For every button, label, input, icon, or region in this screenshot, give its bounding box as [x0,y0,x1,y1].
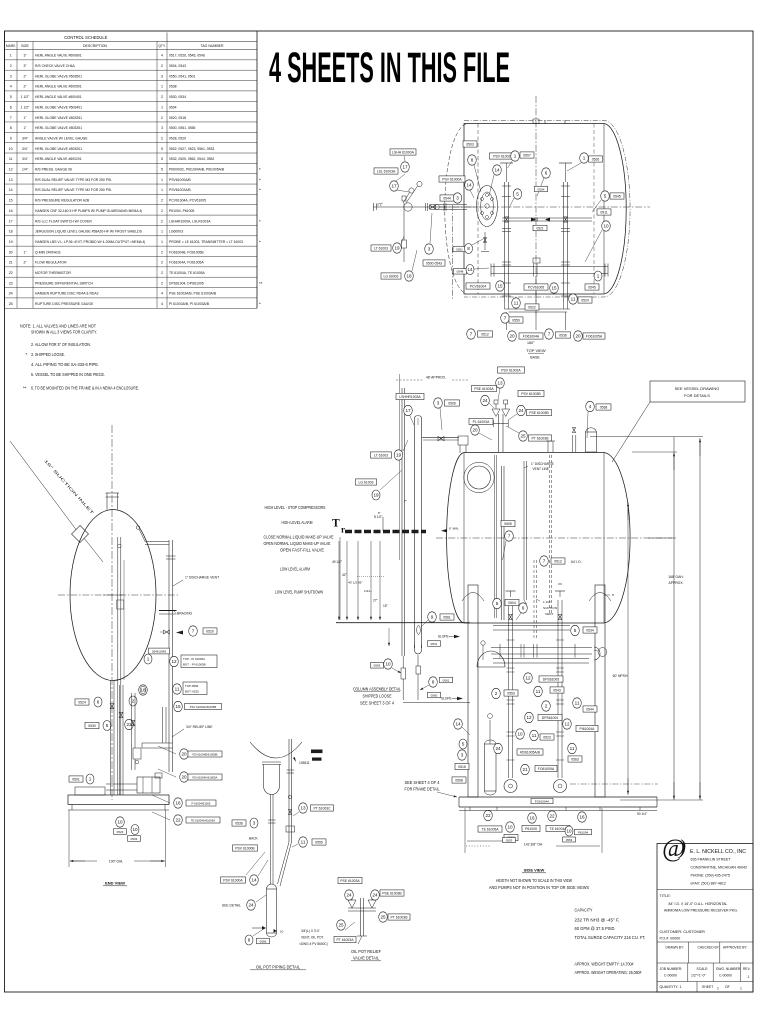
svg-text:18: 18 [9,230,13,234]
svg-text:6": 6" [378,511,381,515]
svg-text:25: 25 [520,434,526,439]
svg-text:P61005: P61005 [525,827,537,831]
svg-text:0520, 0518: 0520, 0518 [169,116,186,120]
svg-text:1: 1 [583,156,586,161]
svg-text:HERL ANGLE VALVE #600501: HERL ANGLE VALVE #600501 [35,85,82,89]
svg-text:2: 2 [161,136,163,140]
svg-text:0524: 0524 [581,298,589,302]
svg-text:REV.: REV. [743,967,751,971]
svg-text:BASE: BASE [530,356,540,360]
svg-text:2: 2 [161,250,163,254]
svg-text:10: 10 [507,825,513,830]
svg-text:16: 16 [175,801,181,806]
svg-text:20: 20 [181,775,187,780]
svg-text:COLUMN ASSEMBLY DETAIL: COLUMN ASSEMBLY DETAIL [353,687,402,692]
svg-text:0528, 0529: 0528, 0529 [169,136,186,140]
svg-text:20: 20 [9,250,13,254]
svg-text:2: 2 [495,691,498,696]
svg-text:1: 1 [89,777,92,782]
svg-text:LG 61003: LG 61003 [359,480,374,484]
svg-text:22: 22 [485,813,491,818]
svg-text:0538: 0538 [600,405,608,409]
svg-text:1" DISCHARGE VENT: 1" DISCHARGE VENT [185,576,219,580]
svg-text:E. L. NICKELL CO., INC: E. L. NICKELL CO., INC [690,849,746,855]
svg-text:84” I.D. X 16’-0” O.A.L. HO: 84” I.D. X 16’-0” O.A.L. HORIZONTAL [669,902,728,906]
svg-text:0512: 0512 [554,559,562,563]
svg-text:BOT.-0525: BOT.-0525 [185,690,199,694]
svg-text:FOR FRAME DETAIL: FOR FRAME DETAIL [405,787,441,792]
svg-text:0524: 0524 [78,700,86,704]
svg-text:CHECKED BY:: CHECKED BY: [698,946,720,950]
svg-text:HEIGTH NOT SHOWN TO SCALE IN T: HEIGTH NOT SHOWN TO SCALE IN THIS VIEW [496,878,573,883]
svg-text:64' I.D.: 64' I.D. [571,560,582,564]
svg-text:SEE DETAIL: SEE DETAIL [222,904,241,908]
svg-text:PSE 61003A/B, PSE 61003A/B: PSE 61003A/B, PSE 61003A/B [169,292,217,296]
svg-text:180°: 180° [527,341,535,345]
svg-text:OIL POT RELIEF: OIL POT RELIEF [351,949,381,954]
svg-text:11: 11 [514,301,519,306]
svg-text:7: 7 [192,629,195,634]
svg-text:3: 3 [461,753,464,758]
svg-text:HERL ANGLE VALVE #600201: HERL ANGLE VALVE #600201 [35,157,82,161]
svg-text:0500 0543: 0500 0543 [426,261,442,265]
svg-text:DPS61005: DPS61005 [543,677,560,681]
svg-text:PI61004A: PI61004A [580,727,596,731]
svg-text:LG 60003: LG 60003 [384,274,399,278]
svg-text:24: 24 [518,408,524,413]
svg-text:1: 1 [161,240,163,244]
svg-text:6: 6 [97,700,100,705]
svg-text:48' APPROX.: 48' APPROX. [426,376,446,380]
svg-text:BOT. - PI 61005B: BOT. - PI 61005B [183,663,206,667]
svg-text:2: 2 [161,64,163,68]
svg-text:17: 17 [9,219,13,223]
svg-text:0504: 0504 [169,105,177,109]
svg-text:24: 24 [9,292,13,296]
svg-text:LG60003: LG60003 [169,230,183,234]
svg-text:10: 10 [566,829,572,834]
svg-text:0523: 0523 [117,830,124,834]
svg-text:8 1/2": 8 1/2" [374,515,383,519]
svg-text:HERL GLOBE VALVE #503201: HERL GLOBE VALVE #503201 [35,147,82,151]
svg-text:17: 17 [391,184,397,189]
svg-text:0501: 0501 [72,777,80,781]
svg-text:R/S LLC FLOAT SWITCH W/ COVER: R/S LLC FLOAT SWITCH W/ COVER [35,219,92,223]
svg-text:*: * [259,177,261,182]
svg-text:0544: 0544 [443,196,451,200]
svg-text:8: 8 [471,158,474,163]
svg-text:BRACING: BRACING [177,612,192,616]
svg-text:19: 19 [394,246,400,251]
svg-text:CUSTOMER: CUSTOMER: CUSTOMER: CUSTOMER [660,930,706,934]
svg-text:C-00000: C-00000 [719,974,732,978]
svg-text:5: 5 [516,192,519,197]
svg-text:1: 1 [748,975,750,979]
svg-text:*: * [259,239,261,244]
svg-text:OF: OF [725,985,730,989]
svg-text:21: 21 [9,261,13,265]
svg-text:8: 8 [248,938,251,943]
svg-text:SIDE VIEW: SIDE VIEW [524,868,545,873]
svg-text:HERL GLOBE VALVE #503251: HERL GLOBE VALVE #503251 [35,126,82,130]
svg-text:TOTAL SURGE CAPACITY 216 CU. F: TOTAL SURGE CAPACITY 216 CU. FT, [575,935,646,940]
svg-text:0543: 0543 [553,688,561,692]
svg-text:11: 11 [575,701,580,706]
svg-text:10: 10 [385,662,391,667]
svg-text:): ) [678,835,686,859]
svg-text:PL 61003A: PL 61003A [473,420,490,424]
svg-text:4: 4 [161,54,163,58]
svg-text:FLOW REGULATOR: FLOW REGULATOR [35,261,67,265]
svg-text:12: 12 [525,676,531,681]
svg-text:27": 27" [373,599,378,603]
svg-text:PSV61000A/B: PSV61000A/B [169,178,191,182]
svg-text:2: 2 [161,271,163,275]
svg-text:24: 24 [372,893,378,898]
svg-text:LSL 61003A: LSL 61003A [377,169,396,173]
svg-text:0504: 0504 [508,601,516,605]
svg-text:RD61005A/B: RD61005A/B [520,750,541,754]
svg-text:CONSTANTINE, MICHIGAN 49042: CONSTANTINE, MICHIGAN 49042 [691,866,747,870]
svg-text:22: 22 [549,814,555,819]
svg-text:8: 8 [432,680,435,685]
svg-text:VALVE DETAIL: VALVE DETAIL [353,956,380,961]
svg-text:TE 61004A, TE 61005A: TE 61004A, TE 61005A [169,271,205,275]
svg-text:3: 3 [437,401,440,406]
svg-text:14: 14 [9,188,13,192]
svg-text:12: 12 [564,722,570,727]
svg-text:CONTROL SCHEDULE: CONTROL SCHEDULE [64,35,108,40]
svg-text:0526: 0526 [592,157,600,161]
svg-text:**: ** [23,386,27,391]
svg-text:*: * [26,352,28,357]
svg-text:JOB NUMBER:: JOB NUMBER: [660,967,683,971]
svg-text:PCV61004: PCV61004 [470,284,487,288]
svg-text:SHEET: SHEET [702,985,713,989]
svg-text:5: 5 [496,601,499,606]
svg-text:2: 2 [161,261,163,265]
svg-text:9: 9 [10,136,12,140]
svg-text:1/4": 1/4" [22,168,29,172]
svg-text:3: 3 [253,821,256,826]
svg-text:2: 2 [545,704,548,709]
svg-text:PCV61004A, PCV61005: PCV61004A, PCV61005 [169,199,206,203]
svg-text:0534: 0534 [586,628,594,632]
svg-text:TE 61004A: TE 61004A [550,827,568,831]
svg-text:0548: 0548 [457,270,464,274]
svg-text:QTY.: QTY. [158,44,166,48]
svg-text:APPROX. WEIGHT EMPTY: 14,700#: APPROX. WEIGHT EMPTY: 14,700# [575,961,634,966]
svg-text:0523: 0523 [543,735,551,739]
svg-text:HANSEN CNF 32-160 5 HP PUMPS W: HANSEN CNF 32-160 5 HP PUMPS W/ PUMP GUA… [35,209,142,213]
svg-text:LT 61003: LT 61003 [374,453,388,457]
svg-text:13: 13 [9,178,13,182]
svg-text:*: * [259,219,261,224]
svg-text:TITLE:: TITLE: [660,894,671,898]
svg-text:DESCRIPTION: DESCRIPTION [83,44,107,48]
svg-text:172": 172" [376,203,384,207]
svg-text:2: 2 [161,209,163,213]
svg-text:15: 15 [551,286,557,291]
svg-text:0517, 0526, 0545, 0546: 0517, 0526, 0545, 0546 [169,54,205,58]
svg-text:BACK: BACK [249,837,259,841]
svg-text:232 TR NH3 @ -45° F,: 232 TR NH3 @ -45° F, [575,917,620,922]
svg-text:LOW LEVEL PUMP SHUTDOWN: LOW LEVEL PUMP SHUTDOWN [275,590,323,595]
svg-text:PT 61003B: PT 61003B [532,436,550,440]
svg-text:17: 17 [402,165,408,170]
svg-text:DPS61004: DPS61004 [542,716,559,720]
svg-text:END VIEW: END VIEW [105,881,125,886]
svg-text:20: 20 [472,428,478,433]
svg-text:3/4": 3/4" [22,147,29,151]
svg-text:0531: 0531 [431,642,438,646]
svg-text:TE 61005A: TE 61005A [482,827,500,831]
svg-text:5: 5 [574,628,577,633]
svg-text:7: 7 [504,316,507,321]
svg-text:CLOSE NORMAL LIQUID MAKE-UP VA: CLOSE NORMAL LIQUID MAKE-UP VALVE [264,535,334,540]
svg-text:R/S CHECK VALVE CH4A: R/S CHECK VALVE CH4A [35,64,76,68]
svg-text:PSE 61003A: PSE 61003A [474,387,494,391]
svg-text:1: 1 [161,230,163,234]
svg-text:0530, 0534: 0530, 0534 [169,95,186,99]
svg-text:25: 25 [9,302,13,306]
svg-text:1: 1 [161,105,163,109]
svg-text:R/S PRESS. GAUGE 06: R/S PRESS. GAUGE 06 [35,168,72,172]
svg-text:3: 3 [428,247,431,252]
svg-text:HERL GLOBE VALVE #503401: HERL GLOBE VALVE #503401 [35,105,82,109]
svg-text:0505: 0505 [504,522,512,526]
svg-text:1: 1 [147,657,150,662]
svg-text:0516: 0516 [458,765,466,769]
svg-text:49 1/2": 49 1/2" [332,560,342,564]
svg-text:8: 8 [467,246,470,251]
svg-text:0561: 0561 [443,615,451,619]
svg-text:OPEN FAST-FILL VALVE: OPEN FAST-FILL VALVE [280,548,324,553]
svg-text:SHIPPED LOOSE: SHIPPED LOOSE [363,694,392,699]
svg-text:PI 61003A/B, PI 61003A/B: PI 61003A/B, PI 61003A/B [169,302,210,306]
svg-text:FOR DETAILS: FOR DETAILS [684,393,710,398]
svg-text:1: 1 [514,154,517,159]
svg-text:2: 2 [161,95,163,99]
svg-text:TOP VIEW: TOP VIEW [526,348,546,353]
svg-text:DPS61004, DPS61005: DPS61004, DPS61005 [169,281,204,285]
svg-text:SLOPE: SLOPE [438,635,449,639]
svg-text:SIZE: SIZE [21,44,29,48]
svg-text:14: 14 [251,878,257,883]
svg-text:4: 4 [10,85,12,89]
svg-text:*: * [259,188,261,193]
svg-text:HANSEN RUPTURE DISC RD4A & RDA: HANSEN RUPTURE DISC RD4A & RDA2 [35,292,99,296]
svg-text:PSV 61002A: PSV 61002A [501,368,521,372]
svg-text:1/2”=1’-0”: 1/2”=1’-0” [691,974,706,978]
svg-text:PSV 61003B: PSV 61003B [521,392,541,396]
svg-text:12: 12 [171,659,177,664]
svg-text:TOP-0556: TOP-0556 [185,684,199,688]
svg-text:22: 22 [175,818,181,823]
svg-text:TOP - PI 61005A: TOP - PI 61005A [183,657,205,661]
svg-text:3/4'(L) X 3'-0': 3/4'(L) X 3'-0' [301,929,320,933]
svg-text:16: 16 [529,816,535,821]
svg-text:PSV 61000A: PSV 61000A [223,878,243,882]
svg-text:0550: 0550 [512,318,520,322]
svg-text:11: 11 [301,840,306,845]
svg-text:PSV 61004A/61005B: PSV 61004A/61005B [190,705,217,709]
svg-text:ANGLE VALVE W/ LEVEL GAUGE: ANGLE VALVE W/ LEVEL GAUGE [35,136,88,140]
svg-text:0521: 0521 [536,226,543,230]
svg-text:2: 2 [161,219,163,223]
svg-text:FO61004B, FO61005B: FO61004B, FO61005B [169,250,204,254]
svg-text:r: r [341,525,345,535]
svg-text:10: 10 [117,820,123,825]
svg-text:CAPACITY: CAPACITY [575,908,593,913]
svg-text:6: 6 [545,171,548,176]
svg-text:<DWG # PV 8600C|: <DWG # PV 8600C| [299,942,328,946]
svg-text:19: 19 [396,453,402,458]
svg-text:PT 61003C: PT 61003C [313,806,331,810]
svg-text:11: 11 [570,746,575,751]
svg-text:18: 18 [406,274,412,279]
svg-text:16: 16 [9,209,13,213]
svg-text:15": 15" [383,604,388,608]
svg-text:24: 24 [248,903,254,908]
svg-text:HERL GLOBE VALVE #503501: HERL GLOBE VALVE #503501 [35,74,82,78]
svg-text:FO61004A: FO61004A [535,799,550,803]
svg-text:2: 2 [161,199,163,203]
svg-text:0520: 0520 [206,629,214,633]
svg-text:Q-MIN ORIFACE: Q-MIN ORIFACE [35,250,62,254]
svg-text:0553: 0553 [566,838,573,842]
svg-text:7": 7" [404,500,407,504]
svg-text:TE 61004A/61005A: TE 61004A/61005A [191,818,216,822]
svg-text:20: 20 [575,334,581,339]
svg-text:3. SHIPPED LOOSE.: 3. SHIPPED LOOSE. [31,352,65,357]
svg-text:6" MIN,: 6" MIN, [449,527,459,531]
svg-text:SHOWN IN ALL 3 VIEWS FOR CLARI: SHOWN IN ALL 3 VIEWS FOR CLARITY. [31,330,97,335]
svg-text:0522: 0522 [528,305,536,309]
svg-text:10: 10 [9,147,13,151]
svg-text:635 FRANKLIN STREET: 635 FRANKLIN STREET [691,858,732,862]
svg-text:0555: 0555 [315,840,323,844]
svg-text:25: 25 [338,923,344,928]
svg-text:3: 3 [161,126,163,130]
svg-text:15: 15 [9,199,13,203]
svg-text:QUANTITY: 1: QUANTITY: 1 [660,985,682,989]
svg-text:2: 2 [161,116,163,120]
svg-text:15: 15 [175,704,181,709]
svg-text:14: 14 [455,722,461,727]
svg-text:14: 14 [466,183,472,188]
svg-text:0553: 0553 [507,691,515,695]
svg-text:SUCTION: SUCTION [543,606,557,610]
svg-text:HERL GLOBE VALVE #503251: HERL GLOBE VALVE #503251 [35,116,82,120]
svg-text:142 3/8" OA: 142 3/8" OA [524,843,543,847]
svg-text:P61004: P61004 [578,830,589,834]
svg-text:24: 24 [346,893,352,898]
svg-text:LSHH 61000A: LSHH 61000A [392,150,414,154]
svg-text:3: 3 [161,74,163,78]
svg-text:90 1/4": 90 1/4" [637,812,647,816]
svg-text:PSV 61000B: PSV 61000B [235,846,255,850]
svg-text:0507: 0507 [523,153,531,157]
svg-text:0556: 0556 [260,939,267,943]
svg-text:0563: 0563 [571,757,579,761]
svg-text:7: 7 [543,559,546,564]
svg-text:DRAWN BY:: DRAWN BY: [666,946,684,950]
svg-text:3: 3 [456,196,459,201]
svg-text:22: 22 [9,271,13,275]
svg-text:4: 4 [161,292,163,296]
svg-text:1 1/2": 1 1/2" [21,95,31,99]
svg-text:4: 4 [161,302,163,306]
svg-text:AND PUMPS NOT IN POSITION IN T: AND PUMPS NOT IN POSITION IN TOP OR SIDE… [489,885,589,890]
svg-text:2. ALLOW FOR 5" OF INSULATION.: 2. ALLOW FOR 5" OF INSULATION. [31,342,91,347]
svg-text:168' OAH.: 168' OAH. [668,575,684,579]
svg-text:P.O.#: 00000: P.O.#: 00000 [660,937,681,941]
svg-text:23: 23 [126,722,132,727]
svg-text:0550, 0541, 0501: 0550, 0541, 0501 [169,74,196,78]
svg-text:6: 6 [10,105,12,109]
svg-text:HANSEN LBS V.L. LP.06 <EXT, PR: HANSEN LBS V.L. LP.06 <EXT, PROBID W/ 4-… [35,240,145,244]
svg-text:0563: 0563 [374,664,381,668]
svg-text:60 GPM @ 37.5 PSID: 60 GPM @ 37.5 PSID [575,926,615,931]
svg-text:10: 10 [132,827,138,832]
svg-text:FO61004A, FO61005A: FO61004A, FO61005A [169,261,204,265]
svg-text:0502, 0527, 0523, 0561, 0533: 0502, 0527, 0523, 0561, 0533 [169,147,214,151]
svg-text:3: 3 [10,74,12,78]
svg-text:3/4": 3/4" [22,157,29,161]
svg-text:0561: 0561 [443,678,450,682]
svg-text:2: 2 [132,699,135,704]
svg-text:R/S PRESSURE REGULATOR A2B: R/S PRESSURE REGULATOR A2B [35,199,90,203]
svg-text:0546,0545: 0546,0545 [152,649,167,653]
svg-text:PSE 61003B: PSE 61003B [382,891,402,895]
svg-text:RUPTURE DISC PRESSURE GAUGE: RUPTURE DISC PRESSURE GAUGE [35,302,94,306]
svg-text:1: 1 [717,987,719,991]
svg-text:14: 14 [467,267,473,272]
svg-text:21: 21 [522,767,528,772]
svg-text:PSE 61003A: PSE 61003A [340,879,360,883]
svg-text:5: 5 [161,157,163,161]
svg-text:11: 11 [9,157,13,161]
svg-text:T: T [332,518,340,530]
svg-text:13: 13 [300,806,306,811]
svg-text:20: 20 [181,752,187,757]
svg-text:C-00000: C-00000 [664,974,677,978]
svg-text:0503: 0503 [131,837,138,841]
svg-text:SCALE:: SCALE: [697,967,709,971]
svg-text:eFAX: (501) 887-4812: eFAX: (501) 887-4812 [691,882,726,886]
svg-text:0538: 0538 [169,85,177,89]
svg-text:0512: 0512 [481,332,489,336]
svg-text:11: 11 [536,689,541,694]
svg-text:SEE VESSEL DRAWING: SEE VESSEL DRAWING [675,386,720,391]
svg-text:P 61004/61005: P 61004/61005 [192,801,211,805]
svg-text:SEE SHEET 4 OF 4: SEE SHEET 4 OF 4 [405,780,441,785]
svg-text:PT 61003B: PT 61003B [391,915,409,919]
svg-text:0530: 0530 [88,724,96,728]
svg-text:TAG NUMBER: TAG NUMBER [200,44,224,48]
svg-text:6. TO BE MOUNTED ON THE FRAME: 6. TO BE MOUNTED ON THE FRAME & IN A NEM… [31,386,139,391]
svg-text:SLOPE: SLOPE [441,697,452,701]
svg-text:0536: 0536 [235,821,243,825]
svg-text:0504: 0504 [538,187,545,191]
svg-text:5. VESSEL TO BE SHIPPED IN ONE: 5. VESSEL TO BE SHIPPED IN ONE PIECE. [31,372,105,377]
svg-text:100” DIA.: 100” DIA. [109,860,123,864]
svg-text:0545: 0545 [613,194,621,198]
svg-text:19: 19 [9,240,13,244]
svg-text:1: 1 [740,987,742,991]
svg-text:5: 5 [161,147,163,151]
